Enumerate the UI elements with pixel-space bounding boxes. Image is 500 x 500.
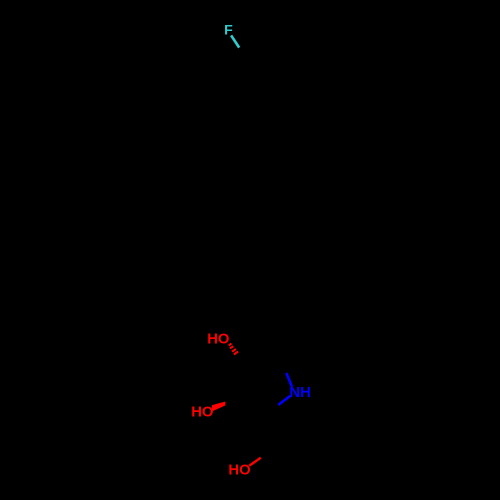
bond C4-O2 solid wedge (oxygen half, red) xyxy=(212,402,225,412)
bond C2-CH2 (to hydroxymethyl) xyxy=(266,414,272,450)
svg-text:HO: HO xyxy=(191,405,213,421)
wire: alkyl chain from aryl ring down to pyrrolidine xyxy=(214,110,268,340)
bond CH2-O3 (oxygen half, red) xyxy=(249,458,260,466)
bond C2-N (nitrogen half, blue) xyxy=(286,373,292,387)
invisible carbon skeleton (black bonds on black background) xyxy=(214,48,286,458)
svg-text:HO: HO xyxy=(207,331,229,347)
black half of C-F bond xyxy=(239,48,247,60)
svg-text:HO: HO xyxy=(228,463,250,479)
bond C5-N (nitrogen half, blue) xyxy=(278,396,290,405)
black half of CH2-OH bond xyxy=(261,450,273,458)
bond C-F (fluorine half, cyan) xyxy=(231,35,239,47)
benzene ring (4-fluorophenyl) xyxy=(229,60,280,110)
pyrrolidine ring carbons xyxy=(239,361,281,415)
black half of C-N bonds xyxy=(266,361,286,415)
svg-text:NH: NH xyxy=(289,385,310,401)
bond C3-O1 hashed wedge (oxygen half, red dashes) xyxy=(229,344,238,355)
